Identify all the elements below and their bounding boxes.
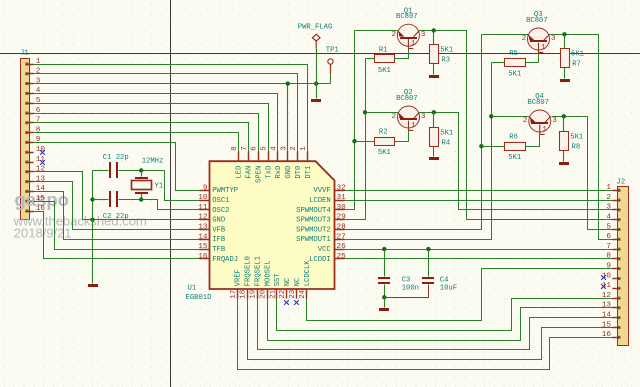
node GND junction at U1 pin3 column: [286, 81, 290, 85]
svg-text:4: 4: [36, 87, 41, 95]
svg-text:5: 5: [36, 97, 41, 105]
svg-text:MODSEL: MODSEL: [264, 260, 272, 286]
wire J1.14 to U1 IFB: [34, 192, 200, 240]
U1 pin 10 OSC1: [200, 200, 210, 202]
wire R4 top stem: [433, 113, 435, 128]
svg-text:FRQADJ: FRQADJ: [212, 256, 238, 264]
svg-text:RxD: RxD: [275, 166, 283, 179]
svg-text:25: 25: [337, 253, 347, 261]
resistor R7 5K1 vertical: [561, 49, 570, 68]
wire R8 top stem: [563, 117, 565, 132]
no-connect X on J1.11: [40, 160, 45, 165]
svg-text:28: 28: [337, 224, 347, 232]
wire GND drop to U1 pin3: [287, 84, 289, 152]
svg-text:17: 17: [230, 290, 238, 299]
svg-text:BC807: BC807: [526, 17, 548, 25]
resistor R8 5K1 vertical: [560, 132, 569, 151]
svg-text:9: 9: [606, 263, 611, 271]
svg-text:8: 8: [606, 253, 611, 261]
svg-text:3: 3: [280, 146, 288, 150]
svg-text:C1 22p: C1 22p: [103, 154, 129, 162]
capacitor C2 22p: [109, 191, 111, 207]
wire Q4 collector to R8 top and J2.5: [552, 117, 613, 230]
svg-text:VREF: VREF: [235, 269, 243, 286]
wire U1 FRQSEL0 pin18 to J2.15: [248, 299, 613, 360]
wire R4 bottom to ground: [433, 147, 435, 157]
svg-text:26: 26: [337, 243, 347, 251]
wire J1.5 to U1 TxD: [34, 104, 269, 152]
wire Q2 collector to R4 top and J2.3: [420, 113, 613, 210]
svg-text:30: 30: [337, 204, 347, 212]
wire Y1 top stem: [141, 171, 143, 177]
wire U1 SST pin21 to J2.12: [277, 299, 613, 331]
svg-text:12: 12: [602, 292, 612, 300]
node VCC junction at C4: [426, 247, 430, 251]
svg-text:DT0: DT0: [295, 166, 303, 179]
wire U1 VREF pin17 to J2.16: [238, 299, 613, 370]
svg-text:7: 7: [36, 117, 41, 125]
svg-text:2: 2: [392, 113, 397, 121]
svg-text:3: 3: [421, 31, 426, 39]
transistor Q2 BC807: [398, 106, 420, 128]
svg-text:3: 3: [552, 117, 557, 125]
svg-text:3: 3: [606, 204, 611, 212]
svg-text:7: 7: [241, 146, 249, 150]
U1 pin 30 SPWMOUT4: [335, 209, 345, 211]
U1 pin 7 FAN: [248, 152, 250, 162]
node C2 junction on ground rail: [90, 197, 94, 201]
U1 pin 12 GND: [200, 219, 210, 221]
svg-text:13: 13: [36, 175, 46, 183]
op-amp-style IC body U1 EGB01D: [210, 161, 335, 289]
ground bar below R4: [429, 157, 439, 160]
wire U1 LCDCLK pin24 to J2.9: [307, 269, 613, 321]
ground bar below R7: [560, 79, 570, 82]
svg-text:3: 3: [421, 113, 426, 121]
svg-text:2: 2: [522, 35, 527, 43]
svg-text:14: 14: [602, 312, 612, 320]
svg-text:16: 16: [602, 331, 612, 339]
svg-text:FAN: FAN: [246, 166, 254, 179]
svg-text:LCDEN: LCDEN: [309, 197, 331, 205]
wire U1 FRQSEL1 pin19 to J2.14: [258, 299, 613, 350]
svg-text:29: 29: [337, 214, 347, 222]
U1 pin 2 DT0: [297, 152, 299, 162]
resistor R5 5K1 horizontal: [505, 59, 526, 67]
capacitor C1 22p: [109, 162, 111, 178]
resistor R4 5K1 vertical: [430, 128, 439, 147]
svg-text:LCDDI: LCDDI: [309, 256, 331, 264]
U1 pin 27 SPWMOUT1: [335, 239, 345, 241]
svg-text:2: 2: [36, 68, 41, 76]
svg-text:1: 1: [300, 146, 308, 151]
U1 pin 24 LCDCLK: [306, 290, 308, 299]
wire OSC1 node: C1 right / Y1 top to U1 OSC1: [119, 171, 200, 201]
svg-text:3: 3: [36, 77, 41, 85]
node Q1 collector junction: [432, 28, 436, 32]
U1 pin 28 SPWMOUT2: [335, 229, 345, 231]
svg-text:12: 12: [198, 214, 208, 222]
svg-text:14: 14: [198, 233, 208, 241]
wire R8 bottom to ground: [563, 151, 565, 162]
wire GND net J1.3 / TP1 / PWR_FLAG: [34, 83, 331, 85]
svg-text:R1: R1: [379, 46, 388, 54]
resistor R2 5K1 horizontal: [375, 138, 395, 146]
svg-text:16: 16: [198, 253, 208, 261]
no-connect X on J2.10: [601, 275, 606, 280]
capacitor C4 10uF: [422, 277, 434, 279]
wire Q3 emitter row: [482, 34, 528, 36]
svg-text:7: 7: [606, 243, 611, 251]
node VCC junction at C3: [382, 247, 386, 251]
svg-text:LCDCLK: LCDCLK: [304, 260, 312, 287]
wire U1 VVVF row to J2.1: [345, 190, 613, 192]
wire R3 bottom to ground: [433, 64, 435, 75]
svg-text:21: 21: [269, 289, 277, 298]
wire VCC row: U1 pin26 to J2.7 via C3 C4: [345, 249, 613, 251]
wire J1.4 to U1 RxD: [34, 94, 278, 152]
svg-text:5K1: 5K1: [440, 130, 453, 138]
wire Q2 emitter row: [366, 112, 398, 114]
svg-text:6: 6: [251, 146, 259, 150]
ground bar below R3: [429, 75, 439, 78]
resistor R1 5K1 horizontal: [375, 55, 395, 63]
svg-text:15: 15: [36, 195, 46, 203]
wire OSC2 node: C2 right / Y1 bottom to U1 OSC2: [119, 200, 200, 210]
svg-text:1: 1: [36, 58, 41, 66]
U1 pin 26 VCC: [335, 249, 345, 251]
svg-text:C2 22p: C2 22p: [103, 213, 129, 221]
svg-text:3: 3: [551, 35, 556, 43]
svg-text:9: 9: [203, 184, 208, 192]
svg-text:SPEN: SPEN: [255, 166, 263, 183]
svg-text:12MHz: 12MHz: [142, 157, 164, 165]
svg-text:IFB: IFB: [212, 236, 226, 244]
node Y1 top junction: [139, 168, 143, 172]
svg-text:2: 2: [290, 146, 298, 150]
U1 pin 23 NC: [296, 290, 298, 299]
svg-text:19: 19: [250, 290, 258, 299]
wire SPWMOUT4 rail A: Q1 emitter / R2 left / U1 pin30: [345, 31, 355, 210]
svg-text:1: 1: [542, 126, 547, 134]
wire C3 ground stub: [384, 298, 386, 308]
node rail C junction at R6 left: [479, 144, 483, 148]
resistor R3 5K1 vertical: [430, 45, 439, 64]
svg-text:TxD: TxD: [265, 166, 273, 179]
svg-text:6: 6: [606, 233, 611, 241]
svg-text:14: 14: [36, 185, 46, 193]
capacitor C3 100n: [378, 277, 390, 279]
wire SPWMOUT3 rail B: R1 left / Q2 emitter / U1 pin29: [345, 59, 366, 220]
wire Q1 base to R1: [395, 49, 409, 59]
wire J1.15 to U1 TFB: [34, 202, 200, 250]
svg-text:5K1: 5K1: [508, 71, 521, 79]
wire R3 top stem: [433, 31, 435, 45]
svg-text:OSC2: OSC2: [212, 207, 229, 215]
node GND junction with C1/C2 ground rail: [90, 218, 94, 222]
svg-text:10: 10: [198, 194, 208, 202]
svg-text:NC: NC: [294, 277, 302, 286]
svg-text:22: 22: [279, 290, 287, 299]
svg-text:8: 8: [36, 126, 41, 134]
svg-text:2: 2: [392, 31, 397, 39]
wire C3 top stem: [384, 250, 386, 277]
svg-text:100n: 100n: [402, 284, 419, 292]
svg-text:5K1: 5K1: [440, 47, 453, 55]
wire PWR_FLAG ground stub: [316, 84, 318, 99]
svg-text:FRQSEL0: FRQSEL0: [245, 256, 253, 286]
svg-text:24: 24: [299, 289, 307, 298]
svg-text:R3: R3: [441, 57, 450, 65]
svg-text:10: 10: [602, 272, 612, 280]
U1 pin 5 TxD: [268, 152, 270, 162]
svg-text:J2: J2: [617, 179, 626, 187]
wire J1.12 to U1 GND pin12: [34, 172, 200, 220]
wire Q2 base to R2: [395, 131, 409, 142]
node Q2 collector junction: [432, 110, 436, 114]
svg-text:SPWMOUT4: SPWMOUT4: [296, 207, 331, 215]
transistor Q3 BC807: [528, 28, 550, 50]
U1 pin 14 IFB: [200, 239, 210, 241]
svg-text:Y1: Y1: [155, 183, 164, 191]
svg-text:LED: LED: [236, 166, 244, 179]
transistor Q1 BC807: [397, 24, 419, 46]
svg-text:NC: NC: [284, 277, 292, 286]
U1 pin 13 VFB: [200, 229, 210, 231]
svg-text:BC807: BC807: [527, 99, 549, 107]
U1 pin 16 FRQADJ: [200, 258, 210, 260]
wire U1 LCDEN row to J2.2: [345, 200, 613, 202]
svg-text:BC807: BC807: [396, 95, 418, 103]
crystal Y1 12MHz: [135, 177, 148, 179]
wire Q3 base to R5: [526, 53, 539, 63]
node Y1 bottom junction: [139, 197, 143, 201]
U1 pin 1 DT1: [307, 152, 309, 162]
svg-text:TFB: TFB: [212, 246, 226, 254]
svg-text:VFB: VFB: [212, 226, 226, 234]
wire C4 bottom to C3 ground node: [385, 285, 429, 298]
svg-text:11: 11: [198, 204, 208, 212]
U1 pin 17 VREF: [237, 290, 239, 299]
svg-text:OSC1: OSC1: [212, 197, 229, 205]
no-connect X on U1 pin22: [284, 300, 289, 305]
svg-text:R4: R4: [442, 140, 451, 148]
svg-text:VVVF: VVVF: [313, 187, 330, 195]
no-connect X on U1 pin23: [294, 300, 299, 305]
svg-text:27: 27: [337, 233, 347, 241]
wire J1.16 to U1 FRQADJ: [34, 212, 200, 259]
wire J1.6 to U1 SPEN: [34, 114, 259, 152]
svg-text:U1: U1: [188, 285, 197, 293]
svg-text:15: 15: [602, 321, 612, 329]
svg-text:5K1: 5K1: [378, 149, 391, 157]
svg-text:SST: SST: [274, 273, 282, 287]
wire U1 MODSEL pin20 to J2.13: [268, 299, 613, 341]
svg-text:2018/9/21: 2018/9/21: [14, 226, 72, 241]
svg-text:GND: GND: [285, 166, 293, 179]
node GND junction under PWR_FLAG: [314, 81, 318, 85]
svg-text:5K1: 5K1: [571, 50, 584, 58]
wire Q1 emitter row: [355, 30, 398, 32]
svg-text:15: 15: [198, 243, 208, 251]
svg-text:GND: GND: [212, 217, 225, 225]
svg-text:8: 8: [231, 146, 239, 150]
svg-text:5K1: 5K1: [378, 67, 391, 75]
U1 pin 9 PWMTYP: [200, 190, 210, 192]
svg-text:R7: R7: [572, 60, 581, 68]
svg-text:5K1: 5K1: [508, 154, 521, 162]
svg-text:C4: C4: [440, 277, 449, 285]
svg-text:4: 4: [606, 214, 611, 222]
node rail B junction at Q2 emitter: [363, 110, 367, 114]
wire SPWMOUT1 rail D: R5 left / Q4 emitter / U1 pin27: [345, 63, 492, 240]
wire Q1 collector to R3 top and J2.4: [420, 31, 613, 220]
wire C4 top stem: [428, 250, 430, 277]
wire U1 LCDDI row to J2.8: [345, 258, 613, 260]
U1 pin 21 SST: [276, 290, 278, 299]
wire J1.9 to U1 PWMTYP: [34, 143, 200, 191]
wire R7 top stem: [564, 35, 566, 49]
svg-text:20: 20: [259, 290, 267, 299]
U1 pin 15 TFB: [200, 249, 210, 251]
svg-text:R6: R6: [509, 134, 518, 142]
wire Q4 base to R6: [526, 135, 540, 147]
wire C1 left: [93, 170, 109, 172]
svg-text:FRQSEL1: FRQSEL1: [254, 256, 262, 286]
svg-text:4: 4: [270, 146, 278, 151]
U1 pin 18 FRQSEL0: [247, 290, 249, 299]
svg-text:31: 31: [337, 194, 347, 202]
svg-text:R8: R8: [572, 144, 581, 152]
wire R7 bottom to ground: [564, 67, 566, 79]
U1 pin 6 SPEN: [258, 152, 260, 162]
svg-text:11: 11: [36, 156, 46, 164]
U1 pin 32 VVVF: [335, 190, 345, 192]
svg-text:PWR_FLAG: PWR_FLAG: [298, 24, 333, 32]
svg-text:J1: J1: [20, 50, 29, 58]
wire R5 left stub to rail D: [492, 62, 505, 64]
U1 pin 25 LCDDI: [335, 258, 345, 260]
U1 pin 20 MODSEL: [267, 290, 269, 299]
wire Q4 emitter row: [492, 116, 529, 118]
transistor Q4 BC807: [529, 110, 551, 132]
U1 pin 11 OSC2: [200, 209, 210, 211]
svg-text:5: 5: [261, 146, 269, 150]
node Q4 collector junction: [562, 114, 566, 118]
svg-text:DT1: DT1: [305, 166, 313, 179]
wire R6 left stub to rail C: [482, 146, 507, 148]
svg-text:18: 18: [240, 290, 248, 299]
svg-text:10uF: 10uF: [440, 284, 457, 292]
ground bar below C3: [379, 308, 389, 311]
connector J1 body: [21, 59, 30, 220]
no-connect X on J1.10: [40, 150, 45, 155]
wire C1/C2 ground rail: [92, 171, 94, 284]
wire J1.2 to U1 DT0: [34, 74, 298, 152]
svg-text:R5: R5: [509, 50, 518, 58]
U1 pin 3 GND: [287, 152, 289, 162]
svg-text:SPWMOUT2: SPWMOUT2: [296, 226, 331, 234]
svg-text:1: 1: [411, 40, 416, 48]
svg-text:32: 32: [337, 184, 347, 192]
U1 pin 4 RxD: [277, 152, 279, 162]
U1 pin 29 SPWMOUT3: [335, 219, 345, 221]
svg-text:13: 13: [198, 224, 208, 232]
svg-text:C3: C3: [402, 277, 411, 285]
svg-text:TP1: TP1: [326, 46, 339, 54]
wire C3 bottom to ground node: [384, 285, 386, 298]
wire J1.7 to U1 FAN: [34, 123, 249, 152]
wire J1.1 to U1 DT1: [34, 65, 308, 152]
U1 pin 31 LCDEN: [335, 200, 345, 202]
svg-text:5K1: 5K1: [570, 134, 583, 142]
svg-text:R2: R2: [379, 129, 388, 137]
svg-text:SPWMOUT3: SPWMOUT3: [296, 217, 331, 225]
connector J2 body: [618, 187, 629, 346]
svg-text:5: 5: [606, 223, 611, 231]
wire TP1 drop: [330, 65, 332, 84]
ground bar for C1/C2: [88, 284, 98, 287]
ground bar below PWR_FLAG: [311, 99, 321, 102]
no-connect X on J2.11: [601, 284, 606, 289]
ground bar below R8: [559, 162, 569, 165]
svg-text:16: 16: [36, 205, 46, 213]
svg-text:12: 12: [36, 166, 46, 174]
svg-text:1: 1: [606, 184, 611, 192]
svg-text:2: 2: [606, 194, 611, 202]
resistor R6 5K1 horizontal: [505, 143, 526, 151]
wire PWR_FLAG stem: [316, 49, 318, 84]
wire Y1 bottom stem: [141, 194, 143, 200]
wire R1 left stub to rail B: [366, 58, 375, 60]
node rail A junction at R2 left: [352, 139, 356, 143]
svg-text:1: 1: [541, 44, 546, 52]
svg-text:VCC: VCC: [318, 246, 332, 254]
wire J1.8 to U1 LED: [34, 133, 239, 152]
wire C2 left: [93, 199, 109, 201]
wire Q3 collector to R7 top and J2.6: [550, 35, 613, 240]
svg-text:9: 9: [36, 136, 41, 144]
wire J1.13 to U1 VFB: [34, 182, 200, 230]
svg-text:PWMTYP: PWMTYP: [212, 187, 238, 195]
U1 pin 8 LED: [238, 152, 240, 162]
wire SPWMOUT2 rail C: Q3 emitter / R6 left / U1 pin28: [345, 35, 482, 230]
svg-text:EGB01D: EGB01D: [186, 294, 212, 302]
svg-text:2: 2: [523, 117, 528, 125]
node rail D junction at Q4 emitter: [489, 114, 493, 118]
svg-text:BC807: BC807: [396, 13, 418, 21]
svg-text:23: 23: [289, 290, 297, 299]
node Q3 collector junction: [562, 32, 566, 36]
svg-text:1: 1: [411, 122, 416, 130]
U1 pin 22 NC: [286, 290, 288, 299]
U1 pin 19 FRQSEL1: [257, 290, 259, 299]
node C3/C4 ground junction: [382, 295, 386, 299]
wire R2 left stub to rail A: [355, 141, 375, 143]
svg-text:6: 6: [36, 107, 41, 115]
svg-text:SPWMOUT1: SPWMOUT1: [296, 236, 331, 244]
svg-text:13: 13: [602, 302, 612, 310]
